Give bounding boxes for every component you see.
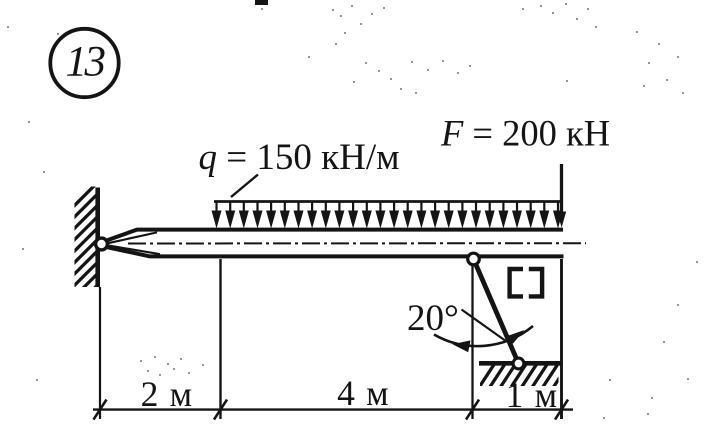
load arrow 3	[239, 202, 249, 229]
load arrow 18	[444, 202, 454, 229]
load arrow 13	[375, 202, 385, 229]
svg-text:q = 150 кН/м: q = 150 кН/м	[199, 137, 400, 178]
angle arc	[434, 326, 533, 346]
svg-text:4 м: 4 м	[337, 373, 390, 413]
load arrow 4	[253, 202, 263, 229]
load arrow 1	[212, 202, 222, 229]
wall line	[95, 188, 100, 288]
top edge ink blob	[255, 0, 268, 5]
load arrow 12	[362, 202, 372, 229]
extension line 4m mark (under pin)	[471, 266, 473, 420]
beam bottom edge	[107, 247, 564, 256]
load arrow 16	[416, 202, 426, 229]
beam top edge	[107, 230, 564, 241]
ground line	[479, 361, 562, 366]
extension line right (beam end)	[560, 259, 563, 419]
angle leader line	[462, 310, 507, 342]
load arrow 21	[485, 202, 495, 229]
load arrow 7	[294, 202, 304, 229]
svg-text:13: 13	[66, 39, 106, 86]
pin at wall	[96, 238, 108, 250]
distributed load top line	[214, 200, 562, 203]
svg-text:F = 200 кН: F = 200 кН	[440, 113, 610, 154]
load arrow 25	[539, 202, 549, 229]
pin at beam-strut joint	[468, 253, 480, 265]
svg-text:20°: 20°	[407, 298, 459, 339]
load arrow 5	[266, 202, 276, 229]
extension line 2m mark	[219, 259, 221, 419]
q label leader line	[231, 175, 258, 198]
pin at ground	[513, 358, 524, 369]
load arrow 9	[321, 202, 331, 229]
load arrow 19	[457, 202, 467, 229]
load arrow 24	[526, 202, 536, 229]
strut bar	[474, 259, 519, 364]
dimension line	[93, 408, 573, 410]
load arrow 11	[348, 202, 358, 229]
load arrow 6	[280, 202, 290, 229]
load arrow 23	[512, 202, 522, 229]
beam centerline	[128, 242, 586, 244]
problem number circle 13	[50, 29, 118, 97]
load arrow 15	[403, 202, 413, 229]
load arrow 17	[430, 202, 440, 229]
load arrow 26	[553, 202, 563, 229]
load arrow 14	[389, 202, 399, 229]
load arrow 10	[334, 202, 344, 229]
channel section symbol right bracket	[529, 269, 542, 296]
tick slash at x=472.5	[466, 400, 479, 420]
tick slash at x=561.5	[555, 400, 568, 420]
load arrow 22	[498, 202, 508, 229]
extension line left (wall)	[99, 287, 101, 419]
beam inner taper bottom	[108, 245, 160, 254]
beam inner taper top	[108, 232, 157, 243]
arc arrowhead left	[453, 340, 471, 352]
svg-text:2 м: 2 м	[141, 374, 194, 414]
tick slash at x=220.5	[214, 400, 227, 420]
load arrow 2	[225, 202, 235, 229]
arc arrowhead right	[507, 330, 524, 344]
load arrow 8	[307, 202, 317, 229]
wall hatching	[70, 181, 99, 324]
tick slash at x=100	[94, 400, 107, 420]
ground hatching	[478, 363, 580, 389]
force F arrow	[557, 164, 566, 228]
channel section symbol left bracket	[510, 269, 523, 296]
load arrow 20	[471, 202, 481, 229]
